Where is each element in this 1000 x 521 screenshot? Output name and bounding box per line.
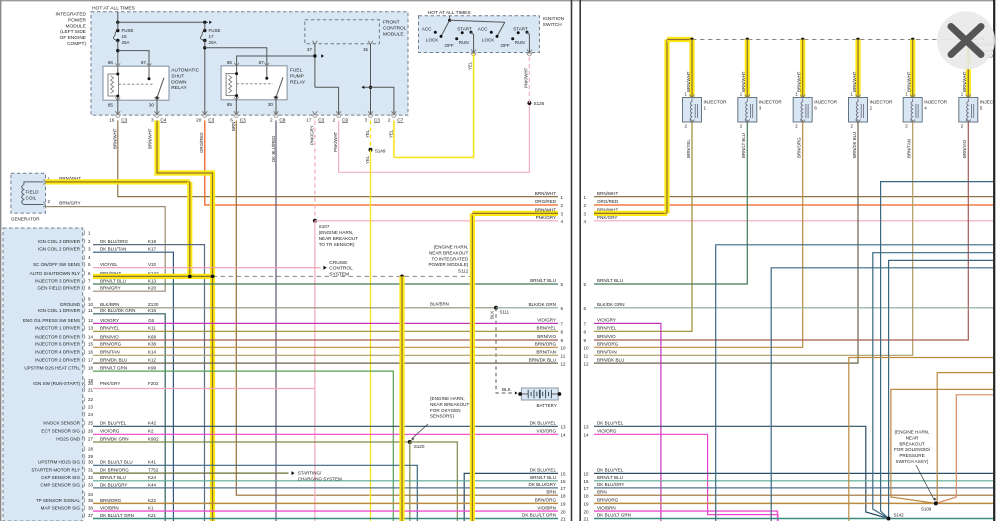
junction below fuse17 bbox=[203, 46, 206, 49]
injector bus dashed bbox=[692, 39, 985, 41]
fuse F15 symbol bbox=[113, 31, 117, 41]
svg-text:15: 15 bbox=[584, 472, 590, 477]
svg-text:BRN/VIO: BRN/VIO bbox=[537, 334, 556, 339]
svg-text:VIO/BRN: VIO/BRN bbox=[597, 505, 616, 510]
svg-text:DK BLU/ORG: DK BLU/ORG bbox=[100, 239, 129, 244]
panel divider lines bbox=[571, 0, 573, 521]
svg-text:PNK/GRY: PNK/GRY bbox=[536, 215, 556, 220]
svg-text:20: 20 bbox=[561, 509, 567, 514]
svg-text:PNK/WHT: PNK/WHT bbox=[333, 131, 338, 152]
svg-text:ACC: ACC bbox=[422, 26, 432, 31]
svg-text:32: 32 bbox=[88, 475, 94, 480]
svg-text:FUEL: FUEL bbox=[290, 68, 303, 74]
svg-text:DK BLU/DK GRN: DK BLU/DK GRN bbox=[100, 308, 135, 313]
svg-text:14: 14 bbox=[88, 334, 94, 339]
svg-text:K16: K16 bbox=[148, 308, 157, 313]
svg-text:VIO/ORG: VIO/ORG bbox=[537, 429, 557, 434]
svg-text:DK BLU/YEL: DK BLU/YEL bbox=[530, 468, 557, 473]
svg-text:VIO/ORG: VIO/ORG bbox=[597, 429, 617, 434]
svg-text:11: 11 bbox=[584, 354, 589, 359]
svg-text:4: 4 bbox=[924, 105, 927, 110]
wire PCM row32 BRN/LT BLU to edge16 bbox=[93, 480, 558, 482]
svg-text:INTEGRATED: INTEGRATED bbox=[55, 12, 86, 18]
svg-text:F202: F202 bbox=[148, 381, 159, 386]
svg-text:BREAKOUT: BREAKOUT bbox=[899, 441, 924, 446]
svg-text:INJECTOR: INJECTOR bbox=[759, 100, 783, 105]
svg-text:K20: K20 bbox=[148, 286, 157, 291]
wire BLK/DK GRN S111 to edge6 bbox=[496, 307, 558, 309]
wire PCM row36 VIO/BRN to edge20 bbox=[93, 510, 558, 512]
wire FCM pin37 down bbox=[313, 41, 318, 45]
svg-text:FOR SOLENOID/: FOR SOLENOID/ bbox=[894, 447, 931, 452]
svg-text:BRN/TAN: BRN/TAN bbox=[597, 350, 617, 355]
wire fuse17 down to pin 20C3 bbox=[204, 22, 206, 30]
svg-text:34: 34 bbox=[88, 492, 94, 497]
svg-text:C3: C3 bbox=[240, 117, 246, 122]
injector 2 box bbox=[856, 95, 861, 99]
injector 6 box bbox=[800, 95, 805, 99]
svg-text:87: 87 bbox=[259, 60, 265, 65]
svg-text:BRN: BRN bbox=[546, 489, 556, 494]
svg-text:BRN/ORG: BRN/ORG bbox=[100, 498, 122, 503]
svg-text:CKP SENSOR SIG: CKP SENSOR SIG bbox=[41, 475, 80, 480]
svg-text:2: 2 bbox=[333, 117, 336, 122]
svg-text:37: 37 bbox=[307, 47, 313, 52]
wire PNK/WHT from 2C9 down then to S126 riser bbox=[339, 103, 530, 172]
wire YEL ignition switch loop bbox=[394, 54, 474, 158]
PCM connector box bbox=[3, 228, 83, 521]
svg-text:BRN: BRN bbox=[231, 122, 236, 131]
svg-text:DK BLU/YEL: DK BLU/YEL bbox=[597, 421, 624, 426]
svg-text:BRN/DK BLU: BRN/DK BLU bbox=[852, 132, 857, 158]
svg-text:11: 11 bbox=[88, 308, 93, 313]
svg-text:HOT AT ALL TIMES: HOT AT ALL TIMES bbox=[92, 6, 136, 12]
svg-text:2: 2 bbox=[270, 117, 273, 122]
svg-text:17: 17 bbox=[88, 358, 94, 363]
svg-text:SC ON/OFF SW SENS: SC ON/OFF SW SENS bbox=[33, 262, 80, 267]
svg-text:LOCK: LOCK bbox=[426, 38, 439, 43]
svg-text:K21: K21 bbox=[148, 513, 157, 518]
svg-text:28: 28 bbox=[88, 447, 94, 452]
wire PCM row17 BRN/DK BLU to edge12 bbox=[93, 362, 558, 364]
wire branch to pin 2C7 bbox=[371, 87, 394, 114]
svg-text:13: 13 bbox=[584, 425, 590, 430]
splice S126 bbox=[527, 101, 531, 105]
svg-text:NEAR BREAKOUT: NEAR BREAKOUT bbox=[429, 250, 469, 255]
svg-text:C3: C3 bbox=[121, 117, 127, 122]
svg-text:SWITCH: SWITCH bbox=[543, 22, 562, 28]
wire branch to relay1 pin87 bbox=[118, 51, 149, 67]
svg-text:18: 18 bbox=[88, 366, 94, 371]
wire PCM row33 DK BLU/GRY to edge17 bbox=[93, 487, 558, 489]
svg-text:IGNITION: IGNITION bbox=[543, 16, 565, 22]
svg-text:29: 29 bbox=[88, 454, 94, 459]
wire DK BLU/YEL riser from bottom to edge15 bbox=[464, 473, 558, 521]
generator pin 2 bbox=[43, 202, 45, 207]
svg-text:SYSTEM: SYSTEM bbox=[329, 272, 349, 278]
svg-text:INJECTOR: INJECTOR bbox=[704, 100, 728, 105]
junction below fuse15 bbox=[116, 49, 119, 52]
svg-text:HO2S GND: HO2S GND bbox=[56, 436, 80, 441]
svg-text:BLK/DK GRN: BLK/DK GRN bbox=[528, 302, 556, 307]
svg-text:26: 26 bbox=[88, 429, 94, 434]
page border top/left bbox=[0, 0, 1000, 2]
svg-text:STARTER MOTOR RLY: STARTER MOTOR RLY bbox=[31, 468, 80, 473]
svg-text:K19: K19 bbox=[148, 239, 157, 244]
svg-text:INJECTOR: INJECTOR bbox=[924, 100, 948, 105]
svg-text:PRESSURE: PRESSURE bbox=[899, 453, 924, 458]
ignition switch box bbox=[419, 16, 540, 53]
svg-text:INJECTOR 6 DRIVER: INJECTOR 6 DRIVER bbox=[35, 342, 81, 347]
svg-text:BRN/DK GRN: BRN/DK GRN bbox=[100, 436, 129, 441]
svg-text:G6: G6 bbox=[148, 318, 155, 323]
splice S111 bbox=[494, 306, 498, 310]
wire relay2 30 to pin 2C8 bbox=[275, 100, 277, 115]
svg-text:DK BLU/RED: DK BLU/RED bbox=[271, 136, 276, 162]
svg-text:LOCK: LOCK bbox=[482, 38, 495, 43]
svg-text:BATTERY: BATTERY bbox=[537, 403, 557, 408]
svg-text:BLK: BLK bbox=[502, 387, 512, 392]
svg-text:BLK/BRN: BLK/BRN bbox=[430, 302, 449, 307]
svg-text:BRN/DK BLU: BRN/DK BLU bbox=[100, 358, 127, 363]
wire PNK/GRY S107 down to PCM row20 bbox=[314, 221, 316, 521]
svg-text:DK BLU/LT BLU: DK BLU/LT BLU bbox=[100, 460, 133, 465]
svg-text:IGN COIL 3 DRIVER: IGN COIL 3 DRIVER bbox=[38, 239, 81, 244]
wire thick yellow from relay1 pin30 down-across-down bbox=[157, 121, 213, 521]
injector 3 box bbox=[745, 95, 750, 99]
svg-text:FUSE: FUSE bbox=[209, 28, 221, 33]
svg-text:C8: C8 bbox=[279, 117, 285, 122]
svg-text:PNK/GRY: PNK/GRY bbox=[100, 381, 120, 386]
wire start2 to pink exit bbox=[527, 32, 529, 52]
svg-text:2: 2 bbox=[870, 105, 873, 110]
injector 2 feed (thick yellow) bbox=[856, 38, 860, 42]
svg-text:13: 13 bbox=[88, 326, 94, 331]
svg-text:DK BLU/LT GRN: DK BLU/LT GRN bbox=[522, 513, 556, 518]
svg-text:BRN/LT BLU: BRN/LT BLU bbox=[530, 278, 556, 283]
svg-text:MODULE: MODULE bbox=[383, 31, 404, 37]
wire FCM pin15 down to pin 3C3 bbox=[368, 41, 373, 45]
wire PCM row25 DK BLU/YEL to edge13 bbox=[93, 425, 558, 427]
svg-text:AUTOMATIC: AUTOMATIC bbox=[171, 68, 199, 74]
wire DK BLU/RED from 2C8 down to bottom bbox=[275, 121, 277, 521]
svg-text:16: 16 bbox=[88, 350, 94, 355]
junction fuse17 top bbox=[203, 21, 206, 24]
svg-text:KNOCK SENSOR: KNOCK SENSOR bbox=[43, 421, 80, 426]
svg-text:K24: K24 bbox=[148, 475, 157, 480]
svg-text:K11: K11 bbox=[148, 326, 156, 331]
svg-text:18: 18 bbox=[584, 493, 590, 498]
svg-text:BRN: BRN bbox=[597, 489, 607, 494]
wire row6 dashed continuation bbox=[213, 275, 473, 277]
ignition switch cluster 2 bbox=[497, 22, 505, 36]
svg-text:CMP SENSOR SIG: CMP SENSOR SIG bbox=[40, 482, 80, 487]
junction FCM37/relay2-86 bbox=[313, 54, 316, 57]
wire R14 VIO/ORG down jog bbox=[594, 434, 778, 521]
svg-text:K41: K41 bbox=[148, 460, 157, 465]
svg-text:S112: S112 bbox=[458, 268, 469, 273]
svg-text:Z130: Z130 bbox=[148, 302, 159, 307]
svg-text:INJECTOR 1 DRIVER: INJECTOR 1 DRIVER bbox=[35, 326, 81, 331]
wire R20 VIO/BRN down at x777.5 bbox=[594, 511, 778, 521]
wire PCM row37 DK BLU/LT GRN to edge21 bbox=[93, 518, 558, 520]
svg-text:YEL: YEL bbox=[365, 155, 370, 164]
PCM pin rows: numbers, colors, circuits, brackets bbox=[84, 230, 85, 235]
wire relay2 85 to pin 6C3 bbox=[235, 100, 237, 115]
wire PCM row7 BRN/LT BLU to edge5 bbox=[93, 283, 558, 285]
wire thick yellow BRN/WHT generator to riser bbox=[46, 179, 190, 184]
svg-text:IGN SW (RUN-START): IGN SW (RUN-START) bbox=[33, 381, 80, 386]
svg-text:37: 37 bbox=[88, 513, 94, 518]
wire BRN from 6C3 down then right to edge row18 bbox=[236, 121, 558, 496]
svg-text:10: 10 bbox=[88, 302, 94, 307]
splice S149 bbox=[369, 148, 373, 152]
svg-text:BRN/VIO: BRN/VIO bbox=[597, 334, 616, 339]
svg-text:14: 14 bbox=[561, 433, 567, 438]
wire YEL from 2C7 down, left-turn from ignition bbox=[393, 121, 395, 158]
svg-text:UPSTRM O2S HEAT CTRL: UPSTRM O2S HEAT CTRL bbox=[24, 366, 80, 371]
wire PCM row18 BRN/LT GRN down via x390 bbox=[93, 371, 393, 521]
svg-text:(ENGINE HARN,: (ENGINE HARN, bbox=[895, 430, 930, 435]
svg-text:S142: S142 bbox=[894, 513, 905, 518]
wire PCM row5 VIO/YEL to cruise arrow bbox=[93, 267, 321, 269]
svg-text:C7: C7 bbox=[397, 117, 403, 122]
svg-text:BRN/WHT: BRN/WHT bbox=[686, 71, 691, 92]
svg-text:VIO/BRN: VIO/BRN bbox=[537, 505, 556, 510]
svg-text:K14: K14 bbox=[148, 350, 157, 355]
svg-text:START: START bbox=[457, 26, 472, 31]
svg-text:BRN/YEL: BRN/YEL bbox=[537, 326, 557, 331]
svg-text:UPSTRM HO2S SIG: UPSTRM HO2S SIG bbox=[38, 460, 80, 465]
splice S142 bbox=[887, 517, 891, 521]
svg-text:20: 20 bbox=[196, 117, 202, 122]
svg-text:BRN/LT BLU: BRN/LT BLU bbox=[741, 133, 746, 158]
svg-text:BRN/TAN: BRN/TAN bbox=[907, 139, 912, 158]
fuse F17 symbol bbox=[200, 31, 204, 41]
svg-text:BRN/YEL: BRN/YEL bbox=[100, 326, 120, 331]
svg-text:BRN/ORG: BRN/ORG bbox=[535, 342, 557, 347]
svg-text:S126: S126 bbox=[534, 101, 545, 106]
wire R6 BLK/DK GRN across bbox=[594, 307, 993, 309]
svg-text:17: 17 bbox=[306, 117, 312, 122]
wire R15 DK BLU/YEL across bbox=[594, 472, 993, 474]
wire fuse15 to relay1 bbox=[117, 22, 119, 30]
svg-text:K68: K68 bbox=[148, 334, 157, 339]
wire PCM row2 DK BLU/ORG to bottom via x204.5 bbox=[93, 245, 205, 521]
svg-text:C3: C3 bbox=[374, 117, 380, 122]
svg-text:OFF: OFF bbox=[501, 43, 510, 48]
svg-text:C4: C4 bbox=[160, 117, 166, 122]
wire PCM row14 BRN/VIO to edge9 bbox=[93, 339, 558, 341]
svg-text:BRN/YEL: BRN/YEL bbox=[686, 139, 691, 158]
svg-text:BRN/YEL: BRN/YEL bbox=[597, 326, 617, 331]
svg-text:(LEFT SIDE: (LEFT SIDE bbox=[60, 29, 86, 35]
svg-text:VIO/ORG: VIO/ORG bbox=[100, 429, 120, 434]
svg-text:K17: K17 bbox=[148, 247, 157, 252]
svg-text:T752: T752 bbox=[148, 468, 159, 473]
splice S120 bbox=[408, 440, 412, 444]
wire relay1 85 to pin 16C3 bbox=[117, 100, 119, 114]
svg-text:RELAY: RELAY bbox=[171, 85, 187, 91]
svg-text:START: START bbox=[513, 26, 528, 31]
svg-text:BRN/WHT: BRN/WHT bbox=[741, 71, 746, 92]
svg-text:16: 16 bbox=[109, 117, 115, 122]
wire R16 BRN/LT BLU across bbox=[594, 480, 993, 482]
relay K2 fuel pump relay bbox=[221, 66, 287, 100]
svg-text:NEAR BREAKOUT: NEAR BREAKOUT bbox=[319, 236, 359, 241]
svg-text:INJECTOR 2 DRIVER: INJECTOR 2 DRIVER bbox=[35, 358, 81, 363]
svg-text:(ENGINE HARN,: (ENGINE HARN, bbox=[434, 245, 469, 250]
svg-text:YEL: YEL bbox=[468, 61, 473, 70]
generator pin 1 bbox=[43, 179, 45, 184]
svg-text:BLK: BLK bbox=[490, 311, 495, 319]
svg-text:S111: S111 bbox=[500, 310, 510, 315]
svg-text:MAP SENSOR SIG: MAP SENSOR SIG bbox=[41, 506, 81, 511]
svg-text:31: 31 bbox=[88, 468, 94, 473]
svg-text:BRN/GRY: BRN/GRY bbox=[59, 200, 81, 205]
svg-text:BLK/BRN: BLK/BRN bbox=[100, 302, 119, 307]
svg-text:BRN/LT BLU: BRN/LT BLU bbox=[100, 475, 126, 480]
svg-text:GROUND: GROUND bbox=[60, 302, 81, 307]
svg-text:COIL: COIL bbox=[26, 196, 37, 201]
splice S109 bbox=[934, 501, 938, 505]
injector 6 feed (thick yellow) bbox=[801, 38, 805, 42]
svg-text:K902: K902 bbox=[148, 436, 159, 441]
svg-text:BRN/TAN: BRN/TAN bbox=[100, 350, 120, 355]
wire PCM row6 BRN/WHT K242 thick yellow bbox=[93, 274, 213, 279]
svg-text:VIO/GRY: VIO/GRY bbox=[100, 318, 119, 323]
svg-text:BRN/ORG: BRN/ORG bbox=[797, 137, 802, 158]
svg-text:PNK/GRY: PNK/GRY bbox=[310, 125, 315, 145]
wire PCM row12 VIO/GRY to edge7 bbox=[93, 322, 558, 324]
wire bus to fuse17 bbox=[118, 21, 208, 23]
wire fuse17 branch to relay2 pin87 bbox=[205, 48, 267, 66]
wire fuse15 feed from box top bbox=[117, 12, 119, 23]
svg-text:IGN COIL 2 DRIVER: IGN COIL 2 DRIVER bbox=[38, 247, 81, 252]
svg-text:ORG/RED: ORG/RED bbox=[535, 199, 557, 204]
svg-text:3: 3 bbox=[151, 117, 154, 122]
wire PNK/GRY dashed from 17C3 to S107 bbox=[314, 121, 316, 221]
svg-text:25: 25 bbox=[88, 421, 94, 426]
battery bbox=[521, 388, 558, 400]
svg-text:27: 27 bbox=[88, 436, 94, 441]
wire R17 DK BLU/GRY across bbox=[594, 487, 993, 489]
wire PCM row16 BRN/TAN to edge11 bbox=[93, 354, 558, 356]
svg-text:36: 36 bbox=[88, 506, 94, 511]
svg-text:85: 85 bbox=[227, 102, 233, 107]
svg-text:1: 1 bbox=[704, 105, 707, 110]
svg-text:RUN: RUN bbox=[459, 40, 469, 45]
svg-text:OF ENGINE: OF ENGINE bbox=[60, 35, 86, 41]
wire PCM row15 BRN/ORG to edge10 bbox=[93, 346, 558, 348]
injector 5 feed (thick yellow) bbox=[966, 38, 970, 42]
svg-text:ACC: ACC bbox=[478, 26, 488, 31]
svg-text:BRN/VIO: BRN/VIO bbox=[100, 334, 119, 339]
svg-text:14: 14 bbox=[584, 433, 590, 438]
junction dots row6 bbox=[188, 275, 192, 279]
svg-text:DK BLU/LT GRN: DK BLU/LT GRN bbox=[100, 513, 134, 518]
svg-text:BRN/WHT: BRN/WHT bbox=[113, 128, 118, 149]
svg-text:VIO/BRN: VIO/BRN bbox=[100, 506, 119, 511]
svg-text:DK BLU/GRY: DK BLU/GRY bbox=[597, 482, 624, 487]
svg-text:VIO/GRY: VIO/GRY bbox=[597, 318, 616, 323]
svg-text:12: 12 bbox=[584, 361, 590, 366]
svg-text:17: 17 bbox=[561, 486, 567, 491]
wire R18 BRN across bbox=[594, 494, 993, 496]
svg-text:ECT SENSOR SIG: ECT SENSOR SIG bbox=[41, 429, 80, 434]
FCM box (front control module) bbox=[305, 20, 380, 44]
svg-text:21: 21 bbox=[584, 517, 590, 521]
svg-text:CONTROL: CONTROL bbox=[329, 266, 353, 272]
svg-text:VIO/YEL: VIO/YEL bbox=[100, 262, 118, 267]
svg-text:25A: 25A bbox=[122, 40, 130, 45]
wire R19 BRN/ORG across with S109 bbox=[594, 502, 993, 504]
svg-text:30: 30 bbox=[88, 460, 94, 465]
svg-text:TO INTEGRATED: TO INTEGRATED bbox=[431, 256, 469, 261]
injector 3 feed (thick yellow) bbox=[745, 38, 749, 42]
wire S120 branch right-down bbox=[410, 442, 458, 521]
svg-text:TP SENSOR SIGNAL: TP SENSOR SIGNAL bbox=[36, 498, 81, 503]
svg-text:30: 30 bbox=[268, 102, 274, 107]
orange-tan wire to S109 from edge y394 bbox=[936, 395, 993, 504]
injector 5 box bbox=[966, 95, 971, 99]
svg-text:K12: K12 bbox=[148, 358, 157, 363]
svg-text:SENSORS): SENSORS) bbox=[430, 414, 454, 419]
svg-text:21: 21 bbox=[88, 387, 94, 392]
svg-text:86: 86 bbox=[108, 60, 114, 65]
svg-text:BRN/WHT: BRN/WHT bbox=[852, 71, 857, 92]
svg-text:PUMP: PUMP bbox=[290, 73, 304, 79]
svg-text:GEN FIELD DRIVER: GEN FIELD DRIVER bbox=[38, 286, 81, 291]
svg-text:K38: K38 bbox=[148, 342, 157, 347]
wire R3 BRN/WHT thick yellow to injector bus bbox=[594, 211, 667, 216]
svg-text:BRN/TAN: BRN/TAN bbox=[536, 350, 556, 355]
svg-text:IGN COIL 1 DRIVER: IGN COIL 1 DRIVER bbox=[38, 308, 81, 313]
svg-text:18: 18 bbox=[561, 493, 567, 498]
svg-text:BRN/WHT: BRN/WHT bbox=[962, 71, 967, 92]
wire YEL dashed from 3C3 to S149 bbox=[370, 121, 372, 150]
svg-text:19: 19 bbox=[561, 502, 567, 507]
svg-text:COMPT): COMPT) bbox=[67, 41, 86, 47]
svg-text:10: 10 bbox=[561, 346, 567, 351]
right page margin bbox=[995, 0, 1000, 521]
svg-text:VIO/GRY: VIO/GRY bbox=[537, 318, 556, 323]
svg-text:BRN/LT BLU: BRN/LT BLU bbox=[597, 278, 623, 283]
wire PCM row30 DK BLU/LT BLU to edge15 bbox=[93, 465, 417, 521]
svg-text:HOT AT ALL TIMES: HOT AT ALL TIMES bbox=[428, 10, 472, 16]
svg-text:DK BLU/LT GRN: DK BLU/LT GRN bbox=[597, 513, 631, 518]
svg-text:INJECTOR: INJECTOR bbox=[814, 100, 838, 105]
svg-text:CONTROL: CONTROL bbox=[383, 25, 407, 31]
svg-text:DK BLU/GRY: DK BLU/GRY bbox=[529, 482, 556, 487]
svg-text:STARTING/: STARTING/ bbox=[298, 471, 322, 476]
svg-text:YEL: YEL bbox=[365, 129, 370, 138]
svg-text:20: 20 bbox=[584, 509, 590, 514]
wire R1 BRN/WHT across bbox=[594, 196, 993, 198]
svg-text:85: 85 bbox=[108, 103, 114, 108]
svg-text:S149: S149 bbox=[375, 149, 386, 154]
wire PCM row31 DK BRN/ORG to starting arrow bbox=[93, 472, 289, 474]
svg-text:S120: S120 bbox=[414, 444, 425, 449]
svg-text:12: 12 bbox=[88, 318, 94, 323]
svg-text:16: 16 bbox=[561, 479, 567, 484]
wire injector 5 BRN/VIO to row bbox=[594, 122, 968, 340]
svg-text:BRN/LT BLU: BRN/LT BLU bbox=[530, 475, 556, 480]
svg-text:15: 15 bbox=[363, 47, 369, 52]
svg-text:20A: 20A bbox=[209, 40, 217, 45]
svg-text:C3: C3 bbox=[318, 117, 324, 122]
wire PCM row10 BLK/BRN to S111 bbox=[93, 307, 496, 309]
